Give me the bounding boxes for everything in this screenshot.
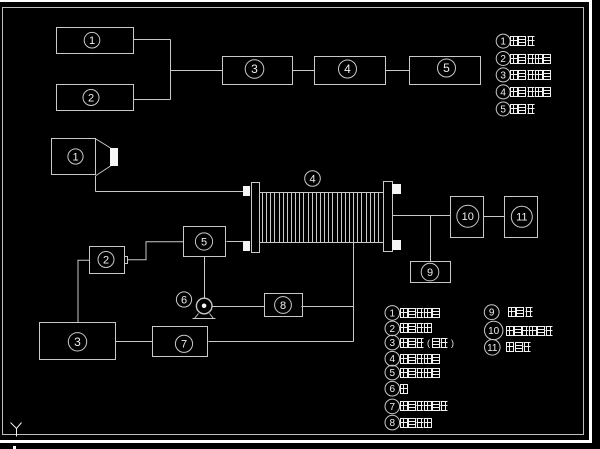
label circle 4 above stack [305,171,321,187]
wire stack to box10 [393,215,451,217]
bottom legend text 1 [401,309,408,318]
box 7 (circulating water controller) [153,327,208,357]
wire box2m to box5m [128,242,184,260]
box 5 (humidity controller) [184,227,226,257]
label circle 4 in box 4 [339,60,357,78]
svg-text:4: 4 [344,62,351,76]
tank 1 taper [96,139,111,176]
bottom legend circle 11 [485,340,501,356]
box 8 (heat exchanger) [265,294,303,317]
wire box3m to box7 [116,341,153,343]
box 1 (hydrogen tank, top row) [57,28,134,54]
svg-text:5: 5 [390,368,396,379]
box 5 (electric motor, top row) [410,57,481,85]
box 2 nozzle [125,257,128,264]
label circle 9 [421,263,439,281]
svg-text:3: 3 [251,62,258,76]
bottom legend circle 4 [385,351,400,366]
box 10 (motor control system) [451,197,484,238]
stack right bottom tab (filled) [392,240,401,250]
top legend text 4 [511,88,518,97]
wire box5m to stack bottom tab [227,241,244,243]
label circle 7 [175,335,192,352]
svg-text:1: 1 [89,35,95,47]
top legend text 2 [511,55,518,64]
bottom legend text 10 [507,327,514,336]
top legend circle 1 [496,34,510,48]
stack right top tab (filled) [392,184,401,194]
label circle 6 (pump) [176,292,191,307]
bottom legend text 11 [507,343,514,352]
svg-text:8: 8 [280,300,286,312]
bottom legend circle 7 [385,399,400,414]
label circle 3 [68,333,86,351]
sheet edge top line [0,0,589,2]
bottom legend text 8 [401,419,408,428]
label circle 5 [195,233,212,250]
top legend text 1 [511,37,518,46]
label circle 5 in box 5 [438,59,456,77]
label circle 11 [511,206,532,227]
box 2 (hydrogen storage) [90,247,125,274]
bottom legend circle 6 [385,381,400,396]
bottom legend circle 5 [385,365,400,380]
svg-text:2: 2 [103,254,109,266]
label circle 8 [275,297,292,314]
junction to box9 vertical [430,216,432,262]
box 3 (fuel cell stack, top row) [223,57,293,85]
svg-text:6: 6 [181,294,187,306]
bottom legend circle 2 [385,321,400,336]
sheet edge right thick line [589,0,592,443]
box 2 (air compressor, top row) [57,85,134,111]
stack body with cells [260,193,384,243]
label circle 10 [457,205,479,227]
svg-text:5: 5 [443,61,450,75]
wire tank down [95,176,97,192]
bottom legend circle 1 [385,306,400,321]
svg-text:11: 11 [516,212,527,224]
top legend text 5 [511,105,518,114]
svg-text:9: 9 [427,267,433,279]
svg-text:5: 5 [201,236,207,248]
tank 1 nozzle (filled) [110,148,118,166]
bottom legend text 7 [401,402,408,411]
top legend text 3 [511,71,518,80]
svg-text:3: 3 [390,338,396,349]
svg-text:): ) [451,338,454,348]
svg-text:10: 10 [488,326,500,337]
bottom legend text 5 [401,369,408,378]
stack left top tab (filled) [243,186,250,196]
svg-text:1: 1 [500,37,506,48]
sheet edge bottom thick bar [0,440,592,443]
svg-text:3: 3 [500,70,506,81]
stack left end plate [252,183,260,253]
wire box2m left down to box3m [78,260,89,322]
svg-text:1: 1 [72,151,78,163]
label circle 1 in box 1 [84,32,100,48]
wire box10 to box11 [484,216,505,218]
bottom legend text 2 [401,324,408,333]
box 4 (energy controller, top row) [315,57,386,85]
wire pump to box8 [213,306,265,308]
wire tank to stack left tab [96,191,244,193]
top legend circle 3 [496,68,510,82]
label circle 2 in box 2 [83,90,99,106]
svg-text:7: 7 [181,339,187,351]
wire box7 to stack drop line [209,341,354,343]
svg-text:2: 2 [390,324,396,335]
UCS icon arrow dot [13,446,16,449]
wire junction to box 3 [171,70,223,72]
svg-text:4: 4 [309,173,315,185]
tank 1 body [52,139,96,175]
svg-text:10: 10 [462,211,474,223]
svg-text:8: 8 [390,418,396,429]
svg-text:4: 4 [500,87,506,98]
label circle 1 in tank [68,149,83,164]
stack left bottom tab (filled) [243,241,250,251]
wire box3 to box4 [293,70,315,72]
bottom legend text 6 [401,385,408,394]
svg-text:2: 2 [88,92,94,104]
stack bottom drop vertical [353,243,355,342]
top legend circle 5 [496,102,510,116]
box 11 (driver) [505,197,538,238]
bottom legend text 9 [509,308,516,317]
svg-text:4: 4 [390,354,396,365]
bottom legend circle 9 [484,305,499,320]
box 3 (reactor) [40,323,116,360]
wire box4 to box5 [386,70,410,72]
top legend circle 2 [496,52,510,66]
svg-text:6: 6 [390,384,396,395]
svg-text:5: 5 [500,105,506,116]
bottom legend circle 8 [385,415,400,430]
svg-text:7: 7 [390,402,396,413]
svg-text:9: 9 [489,308,495,319]
wire box2 to junction [134,99,171,101]
label circle 3 in box 3 [245,60,264,79]
svg-text:2: 2 [500,54,506,65]
svg-text:11: 11 [487,343,498,354]
junction vertical wire [170,40,172,100]
svg-text:1: 1 [390,308,396,319]
bottom legend text 3 [401,339,408,348]
wire box5m down to pump [204,257,206,299]
bottom legend circle 3 [385,335,400,350]
bottom legend text 4 [401,355,408,364]
box 9 (battery) [411,262,451,283]
UCS icon Y axis [11,423,22,437]
label circle 2 [98,252,114,268]
bottom legend circle 10 [485,321,503,339]
svg-text:(: ( [427,338,430,348]
wire box8 to stack drop line [302,306,354,308]
wire box1 to junction [134,39,171,41]
svg-text:3: 3 [74,335,81,349]
stack right end plate [384,182,393,252]
top legend circle 4 [496,85,510,99]
pump 6 symbol [193,298,216,318]
